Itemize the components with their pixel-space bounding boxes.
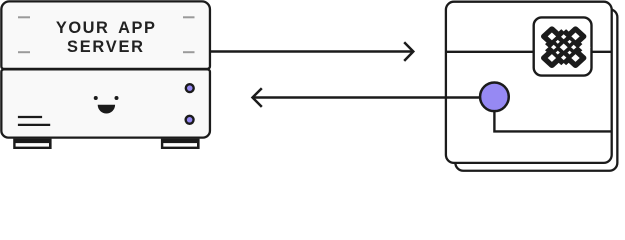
database card shadow	[455, 9, 617, 171]
server top box	[1, 1, 210, 69]
LED bottom	[186, 116, 194, 124]
logo tile	[534, 17, 592, 75]
junction top	[554, 28, 573, 45]
left eye	[94, 96, 98, 100]
connector down from node	[494, 100, 611, 131]
junction bottom	[554, 49, 573, 66]
server bottom box	[1, 69, 210, 137]
edge notch top	[560, 24, 568, 31]
card divider line	[446, 51, 612, 53]
vent line long	[18, 124, 50, 126]
response arrow (node to server)	[253, 88, 481, 107]
svg-text:YOUR APP: YOUR APP	[56, 19, 157, 37]
database card	[446, 2, 612, 163]
right foot	[161, 139, 200, 149]
screw dash bottom-right	[183, 51, 195, 53]
right eye	[115, 96, 119, 100]
request arrow (server to database)	[211, 42, 413, 61]
left foot	[13, 139, 51, 149]
lobe TL	[544, 29, 560, 43]
junction right	[566, 39, 585, 56]
LED top	[186, 84, 194, 92]
edge notch right	[579, 42, 591, 53]
satellites	[556, 40, 560, 44]
lobe BL	[544, 51, 560, 65]
screw dash bottom-left	[18, 51, 30, 53]
center diamond	[548, 32, 580, 62]
vent line short	[18, 116, 42, 118]
screw dash top-left	[18, 16, 30, 18]
junction left	[543, 39, 562, 56]
purple node	[480, 82, 509, 111]
svg-text:SERVER: SERVER	[67, 38, 145, 56]
lobe TR	[568, 29, 584, 43]
weave pockets	[551, 45, 556, 50]
edge notch left	[537, 42, 549, 53]
center hole	[560, 44, 568, 51]
woven knot logo	[537, 24, 591, 70]
corner loop holes	[548, 33, 556, 41]
edge notch bottom	[560, 63, 568, 70]
smiling mouth	[98, 105, 115, 114]
screw dash top-right	[183, 16, 195, 18]
lobe BR	[568, 51, 584, 65]
